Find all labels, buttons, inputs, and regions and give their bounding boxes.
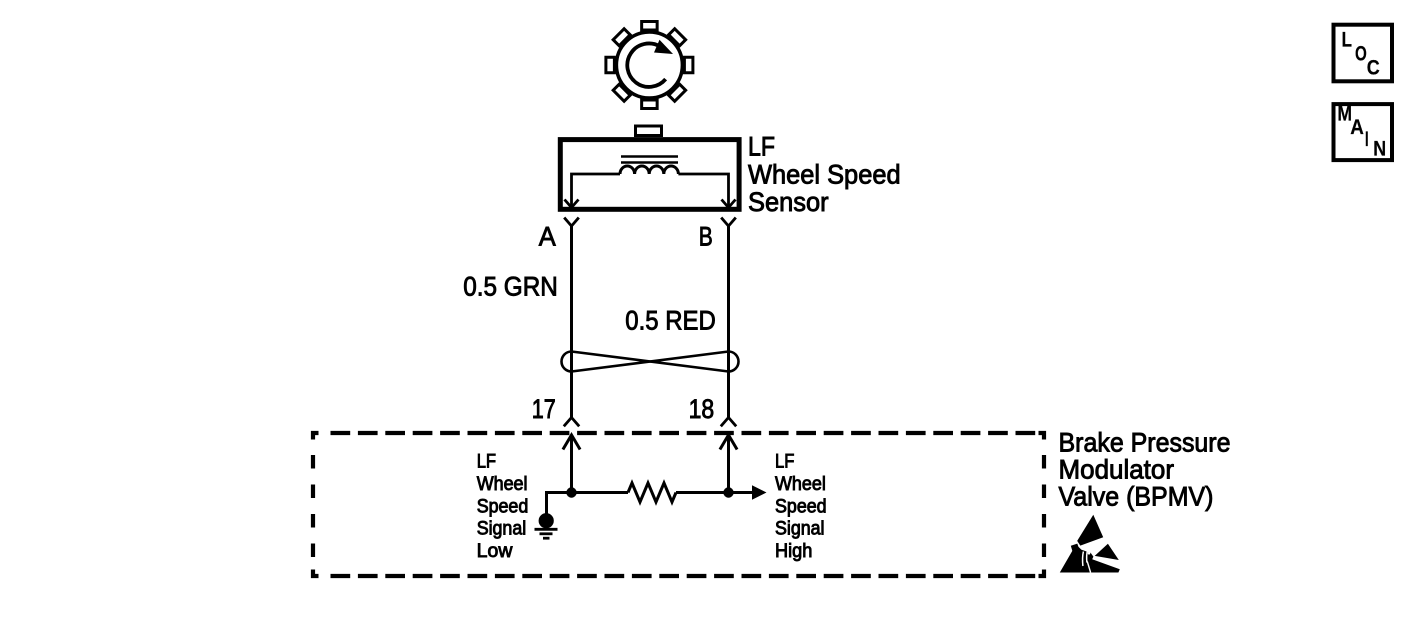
svg-text:Valve (BPMV): Valve (BPMV)	[1059, 482, 1214, 512]
twisted pair symbol	[562, 352, 739, 372]
svg-text:Low: Low	[477, 541, 513, 562]
wire to resistor	[572, 491, 629, 494]
BPMV pin 17 arrow up	[563, 435, 580, 493]
sensor box outline	[560, 140, 739, 210]
sensor coil L	[620, 166, 678, 174]
svg-text:Speed: Speed	[775, 496, 827, 517]
svg-text:0.5 GRN: 0.5 GRN	[463, 271, 558, 301]
svg-text:Brake Pressure: Brake Pressure	[1059, 428, 1231, 458]
BPMV pin 18 arrow up	[720, 435, 737, 493]
ground symbol	[535, 513, 558, 538]
rotation arrow inside tone wheel	[627, 40, 673, 87]
svg-text:Modulator: Modulator	[1059, 455, 1175, 485]
junction dot pin 18	[723, 487, 733, 497]
sensor internal wire right with down arrow	[678, 174, 735, 208]
LOC box	[1334, 25, 1393, 82]
sensor internal wire left with down arrow	[565, 174, 621, 208]
resistor	[628, 483, 676, 502]
svg-text:LF: LF	[775, 452, 794, 473]
tone wheel (wheel speed sensor ring)	[606, 22, 693, 109]
svg-text:LF: LF	[477, 452, 496, 473]
svg-text:Signal: Signal	[775, 519, 825, 540]
svg-text:High: High	[775, 541, 812, 562]
wire B (0.5 RED)	[727, 226, 730, 418]
pin 17 connector caret	[564, 418, 579, 427]
junction dot pin 17	[566, 487, 576, 497]
svg-text:A: A	[1350, 116, 1364, 139]
svg-text:N: N	[1373, 137, 1386, 160]
pin 18 connector caret	[721, 418, 736, 427]
wire resistor to junction 18	[676, 491, 729, 494]
label LF Wheel Speed Signal High	[775, 452, 827, 563]
svg-text:17: 17	[532, 394, 556, 424]
svg-text:I: I	[1365, 128, 1369, 151]
svg-text:18: 18	[689, 394, 715, 424]
svg-text:C: C	[1367, 56, 1380, 79]
label Brake Pressure Modulator Valve (BPMV)	[1059, 428, 1231, 512]
svg-text:Sensor: Sensor	[748, 187, 829, 217]
svg-text:B: B	[699, 222, 713, 252]
sensor core lines	[621, 157, 678, 163]
sensor connector tab	[636, 126, 662, 136]
svg-text:LF: LF	[748, 132, 775, 162]
svg-text:Wheel: Wheel	[477, 474, 528, 495]
svg-text:L: L	[1342, 29, 1353, 52]
MAIN box	[1334, 103, 1393, 161]
svg-text:Wheel: Wheel	[775, 474, 826, 495]
label LF Wheel Speed Sensor	[748, 132, 901, 218]
svg-text:Speed: Speed	[477, 496, 529, 517]
signal high arrow	[729, 485, 767, 499]
svg-text:A: A	[539, 222, 556, 252]
svg-text:O: O	[1355, 43, 1367, 66]
label LF Wheel Speed Signal Low	[477, 452, 529, 563]
wire A (0.5 GRN)	[570, 226, 573, 418]
BPMV dashed box	[313, 433, 1044, 576]
svg-text:Wheel Speed: Wheel Speed	[748, 160, 901, 190]
ESD symbol	[1060, 515, 1120, 573]
svg-text:0.5 RED: 0.5 RED	[625, 306, 716, 336]
ground wire	[547, 493, 572, 515]
pin A connector Y	[564, 218, 579, 226]
pin B connector Y	[721, 218, 736, 226]
svg-text:Signal: Signal	[477, 519, 527, 540]
